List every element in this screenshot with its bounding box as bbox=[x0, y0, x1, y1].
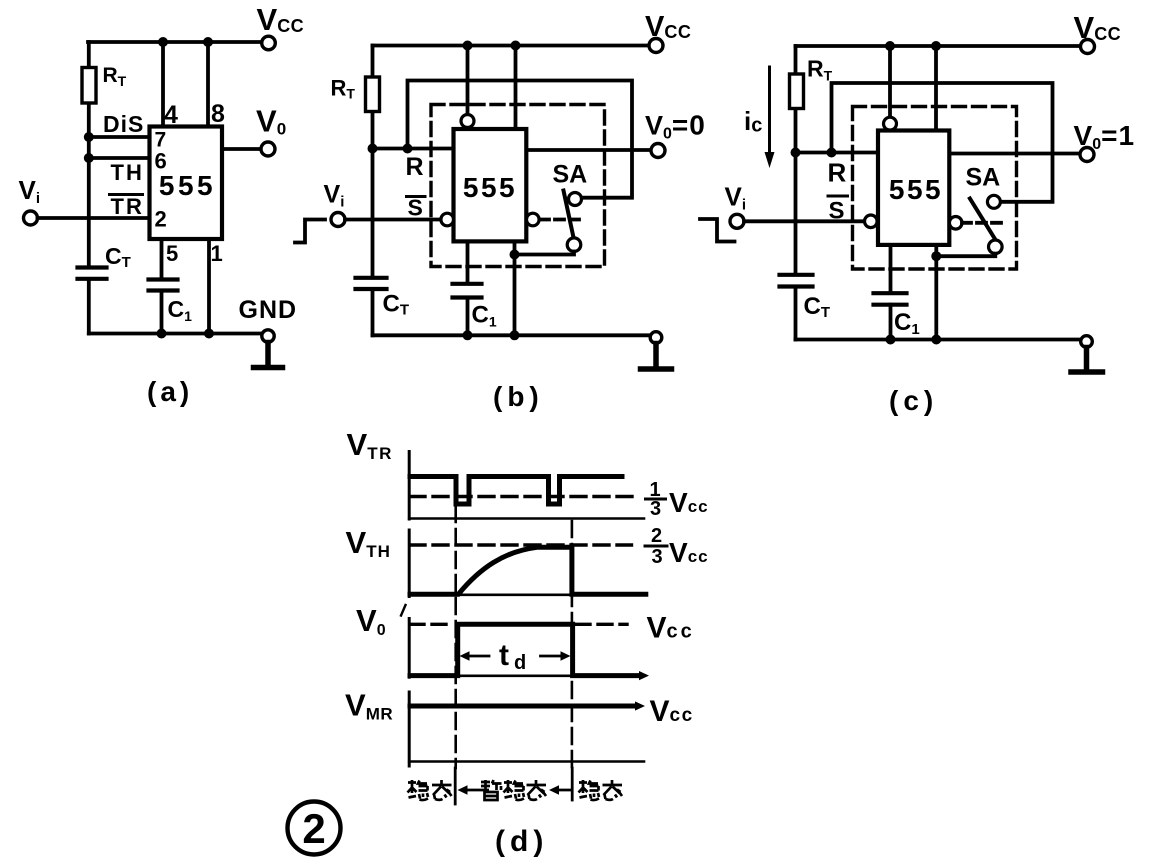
terminal ground (c) bbox=[1081, 336, 1093, 348]
arrowhead V_MR line bbox=[635, 701, 645, 710]
capacitor CT (a) bbox=[78, 268, 107, 279]
current arrow ic (c) bbox=[768, 67, 771, 155]
fraction bar 2/3 bbox=[645, 545, 667, 548]
wire: pin8 to rail (c) bbox=[934, 46, 938, 131]
label wentai 2 (stable state) bbox=[579, 780, 600, 800]
wire: feedback loop R to SA (b) bbox=[408, 81, 633, 198]
wire: R pin horizontal (c) bbox=[796, 151, 879, 155]
wire: feedback loop R to SA (c) bbox=[832, 83, 1053, 202]
terminal Vi (a) bbox=[24, 211, 38, 225]
wire: output pin3 (a) bbox=[222, 147, 261, 151]
terminal Vi (c) bbox=[730, 214, 744, 228]
dashed time marker t2 bbox=[571, 521, 574, 768]
junction bottom pin5 (a) bbox=[157, 329, 167, 339]
pin circle right (c) bbox=[949, 217, 962, 230]
junction on rail at pin8 (a) bbox=[203, 37, 213, 47]
junction rail pin4 (b) bbox=[463, 41, 473, 51]
IC U3 555 (c) bbox=[878, 131, 949, 245]
wire: pin8 to rail (b) bbox=[514, 46, 518, 130]
junction on rail at pin4 (a) bbox=[158, 37, 168, 47]
wire: Vi to S pin (b) bbox=[345, 218, 441, 222]
axis V_MR vertical bbox=[408, 692, 411, 766]
wire: bottom-right pin vertical (b) bbox=[513, 241, 517, 335]
wire: Vcc top rail (c) bbox=[796, 44, 1081, 48]
wire: Vcc top rail (a) bbox=[88, 40, 262, 44]
wire: pin1 vertical (a) bbox=[207, 239, 211, 334]
fraction bar 1/3 bbox=[646, 498, 666, 501]
switch SA top contact (b) bbox=[569, 193, 582, 206]
pulse symbol at input (b) bbox=[295, 220, 325, 243]
resistor RT (c) bbox=[790, 74, 804, 109]
axis V_TH vertical bbox=[408, 530, 411, 597]
terminal ground (b) bbox=[650, 332, 662, 344]
svg-text:2: 2 bbox=[302, 805, 325, 852]
svg-text:(d): (d) bbox=[495, 825, 548, 858]
capacitor C1 (c) bbox=[874, 293, 907, 305]
waveform V_TR with two notches bbox=[410, 477, 622, 505]
junction bottom left pin (b) bbox=[463, 330, 473, 340]
switch SA bottom contact (c) bbox=[989, 240, 1003, 254]
junction rail pin4 (c) bbox=[885, 41, 895, 51]
label zanwentai (quasi-stable state) bbox=[481, 780, 502, 800]
dashed wire to switch (b) bbox=[540, 218, 584, 222]
wire: switch to bottom pin (c) bbox=[936, 254, 995, 257]
wire: left vertical branch (c) bbox=[794, 46, 798, 340]
capacitor C1 (b) bbox=[453, 284, 482, 298]
junction rail pin8 (b) bbox=[511, 41, 521, 51]
wire: bottom rail (b) bbox=[373, 333, 651, 337]
wire: pin5 vertical (a) bbox=[160, 239, 164, 334]
axis V0 baseline thin bbox=[409, 674, 574, 677]
svg-text:1: 1 bbox=[211, 241, 223, 266]
svg-text:(a): (a) bbox=[147, 376, 193, 407]
capacitor C1 (a) bbox=[149, 280, 178, 291]
resistor RT (a) bbox=[82, 68, 96, 104]
pin circle S (b) bbox=[441, 213, 454, 226]
axis V_TH baseline thin bbox=[409, 593, 646, 596]
td left arrow bbox=[466, 655, 489, 658]
junction at TH (a) bbox=[84, 153, 94, 163]
svg-text:SA: SA bbox=[966, 164, 1001, 192]
svg-text:V0=0: V0=0 bbox=[645, 110, 706, 143]
terminal Vcc (b) bbox=[649, 39, 663, 53]
pin circle top (b) bbox=[461, 115, 474, 128]
svg-text:2: 2 bbox=[155, 207, 167, 232]
wire: output to V0 (c) bbox=[944, 152, 1080, 156]
svg-text:SA: SA bbox=[553, 161, 588, 189]
junction bottom right pin (b) bbox=[510, 330, 520, 340]
wire: bottom-left pin vertical (b) bbox=[466, 241, 470, 335]
junction at DiS (a) bbox=[84, 132, 94, 142]
interval arrow into t1 bbox=[466, 789, 481, 792]
capacitor CT (c) bbox=[780, 275, 813, 287]
junction switch tee (c) bbox=[931, 251, 941, 261]
junction switch tee (b) bbox=[510, 250, 520, 260]
terminal Vcc (a) bbox=[262, 36, 276, 50]
pin circle S (c) bbox=[865, 215, 878, 228]
waveform V0 pulse bbox=[410, 624, 640, 675]
dashed enclosure (b) bbox=[431, 105, 605, 267]
terminal V0 (b) bbox=[651, 144, 665, 158]
svg-text:V0=1: V0=1 bbox=[1074, 120, 1136, 153]
svg-text:4: 4 bbox=[164, 101, 178, 129]
ground symbol (a) bbox=[254, 343, 283, 368]
switch arm SA open (c) bbox=[970, 199, 996, 241]
junction bottom pin1 (a) bbox=[204, 329, 214, 339]
resistor RT (b) bbox=[366, 77, 380, 112]
junction bottom right pin (c) bbox=[931, 335, 941, 345]
wire: Vi to pin2 (a) bbox=[38, 216, 150, 220]
svg-text:TH: TH bbox=[111, 160, 144, 185]
circled figure number 2 bbox=[288, 802, 341, 855]
junction left vertical at R (c) bbox=[791, 148, 801, 158]
dashed level 2/3 Vcc bbox=[410, 543, 632, 546]
td right arrow bbox=[541, 655, 565, 658]
wire: bottom rail (c) bbox=[796, 338, 1081, 342]
wire: Vcc top rail (b) bbox=[373, 44, 650, 48]
wire: left vertical branch (b) bbox=[371, 46, 375, 336]
wire: switch to bottom pin (b) bbox=[515, 252, 575, 255]
svg-text:S: S bbox=[408, 195, 423, 221]
wire: Vi to S pin (c) bbox=[744, 219, 864, 223]
dashed time marker t1 bbox=[454, 506, 457, 768]
dashed level 1/3 Vcc bbox=[410, 495, 640, 498]
svg-text:2: 2 bbox=[651, 525, 662, 547]
axis V_TR horizontal bbox=[409, 517, 644, 520]
svg-text:R: R bbox=[406, 153, 424, 181]
IC U1 555 (a) bbox=[150, 127, 223, 240]
terminal GND (a) bbox=[262, 330, 274, 342]
svg-text:3: 3 bbox=[651, 546, 662, 568]
junction rail pin8 (c) bbox=[931, 41, 941, 51]
wire: pin4 to rail (b) bbox=[466, 46, 470, 115]
dashed level Vcc (V0 panel) bbox=[410, 623, 627, 626]
axis V_MR baseline thin bbox=[409, 760, 644, 763]
svg-text:8: 8 bbox=[211, 100, 225, 128]
switch arm SA (b) bbox=[564, 191, 574, 238]
svg-text:5: 5 bbox=[166, 241, 178, 266]
svg-text:R: R bbox=[828, 158, 847, 188]
stray apostrophe mark near V0 label bbox=[401, 605, 406, 616]
terminal Vi (b) bbox=[331, 213, 345, 227]
wire: left vertical branch (a) bbox=[87, 42, 91, 334]
junction feedback at R (c) bbox=[827, 148, 837, 158]
waveform V_MR high line bbox=[410, 704, 636, 709]
svg-text:TR: TR bbox=[111, 194, 144, 219]
switch SA bottom contact (b) bbox=[567, 238, 581, 252]
svg-text:(c): (c) bbox=[889, 385, 938, 416]
terminal Vcc (c) bbox=[1081, 40, 1095, 54]
arrowhead V0 baseline bbox=[639, 671, 649, 680]
junction left vertical at R (b) bbox=[368, 144, 378, 154]
capacitor CT (b) bbox=[356, 278, 387, 289]
ground symbol (b) bbox=[641, 344, 672, 370]
waveform V_TH exponential bbox=[410, 547, 646, 594]
wire: pin 4 to rail (a) bbox=[161, 42, 165, 127]
svg-text:3: 3 bbox=[650, 498, 661, 520]
switch SA top contact (c) bbox=[987, 195, 1000, 208]
pin circle right (b) bbox=[527, 213, 540, 226]
wire: pin 8 to rail (a) bbox=[206, 42, 210, 127]
svg-text:GND: GND bbox=[239, 296, 298, 324]
wire: pin4 to rail (c) bbox=[888, 46, 892, 117]
dashed wire to switch (c) bbox=[962, 221, 1003, 225]
terminal V0 (a) bbox=[261, 142, 275, 156]
svg-text:555: 555 bbox=[159, 170, 216, 201]
svg-text:(b): (b) bbox=[493, 381, 544, 412]
label wentai 1 (stable state) bbox=[408, 780, 429, 800]
axis V0 vertical bbox=[408, 619, 411, 678]
svg-text:DiS: DiS bbox=[103, 111, 144, 137]
axis V_TR vertical bbox=[408, 452, 411, 520]
junction feedback at R (b) bbox=[403, 144, 413, 154]
wire: bottom-left pin vertical (c) bbox=[889, 245, 893, 340]
svg-text:S: S bbox=[829, 198, 845, 225]
wire: bottom-right pin vertical (c) bbox=[934, 245, 938, 340]
IC U2 555 (b) bbox=[454, 129, 527, 241]
wire: TH pin6 horizontal (a) bbox=[89, 156, 150, 160]
terminal V0 (c) bbox=[1080, 148, 1094, 162]
pulse symbol at input (c) bbox=[700, 219, 735, 242]
wire: DiS pin7 horizontal (a) bbox=[89, 135, 150, 139]
dashed enclosure (c) bbox=[853, 107, 1017, 270]
wire: output to V0 (b) bbox=[520, 148, 651, 152]
ground symbol (c) bbox=[1071, 348, 1103, 373]
interval arrow after zanwentai bbox=[557, 789, 571, 792]
svg-text:555: 555 bbox=[463, 172, 517, 203]
svg-text:555: 555 bbox=[889, 174, 943, 205]
junction bottom left pin (c) bbox=[886, 335, 896, 345]
wire: bottom rail (a) bbox=[89, 332, 262, 336]
wire: R pin horizontal (b) bbox=[373, 147, 454, 151]
pin circle top (c) bbox=[884, 117, 897, 130]
CJK state labels row bbox=[408, 780, 623, 800]
